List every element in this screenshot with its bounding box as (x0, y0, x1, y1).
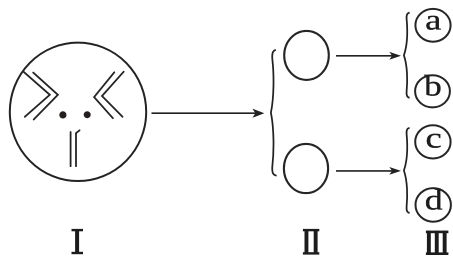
svg-text:c: c (425, 122, 441, 155)
centriole dot left (59, 111, 66, 118)
label II stage (303, 229, 319, 255)
arrow 2 head (389, 52, 401, 60)
tick on right rod (76, 130, 80, 133)
chromosome bivalent right (outer chevron) (94, 72, 114, 118)
svg-text:d: d (425, 183, 443, 216)
arrow 1 shaft (152, 112, 257, 114)
arrow 1 head (252, 109, 264, 118)
cell I outline (10, 43, 146, 181)
chromosome bivalent left (inner chevron) (33, 73, 58, 120)
cell c circle (415, 125, 450, 158)
chromosome bivalent right (inner chevron) (102, 72, 124, 117)
big brace (271, 50, 277, 176)
arrow 3 head (389, 167, 401, 175)
label I stage (72, 229, 84, 254)
small brace bottom (404, 128, 410, 213)
cell II top (284, 31, 329, 80)
cell II bottom (284, 144, 328, 193)
cell d circle (416, 188, 451, 222)
centriole dot right (84, 111, 91, 118)
chromosome bivalent left (outer chevron) (24, 72, 50, 117)
svg-text:b: b (424, 70, 442, 103)
chromosome pair bottom (right rod) (75, 133, 77, 166)
cell b circle (415, 75, 450, 107)
chromosome pair bottom (left rod) (70, 132, 72, 166)
cell a circle (415, 9, 450, 42)
svg-text:a: a (425, 4, 441, 37)
label III stage (426, 231, 449, 255)
arrow 3 shaft (336, 170, 393, 172)
small brace top (404, 13, 410, 98)
arrow 2 shaft (336, 55, 393, 57)
